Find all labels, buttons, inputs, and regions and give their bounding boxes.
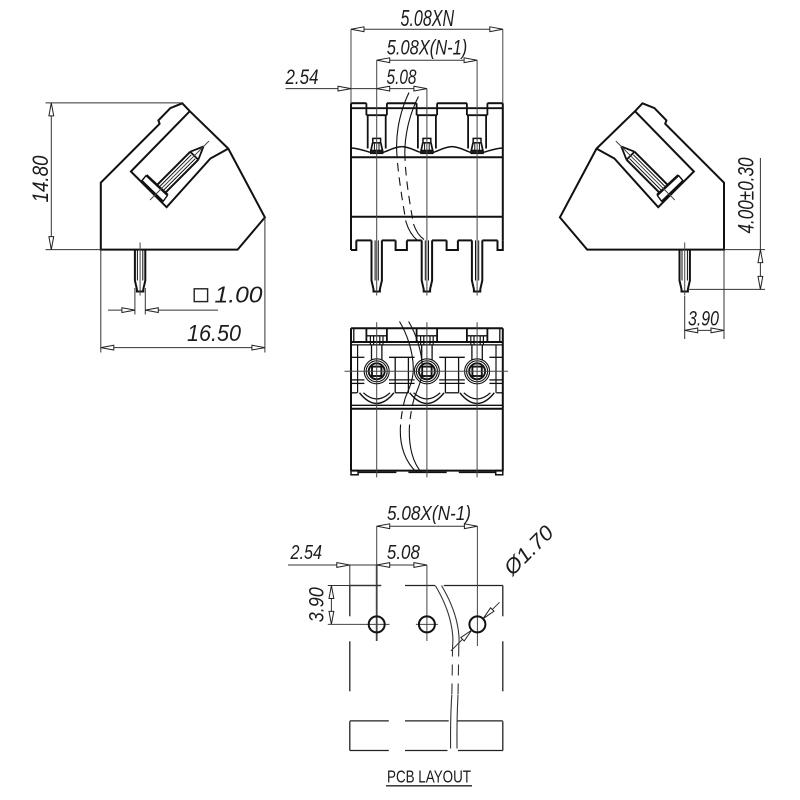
svg-text:5.08: 5.08 <box>387 66 417 89</box>
svg-text:3.90: 3.90 <box>688 308 719 331</box>
svg-text:4.00±0.30: 4.00±0.30 <box>734 157 759 234</box>
svg-text:2.54: 2.54 <box>290 542 322 564</box>
svg-text:5.08X(N-1): 5.08X(N-1) <box>387 503 471 525</box>
svg-text:5.08XN: 5.08XN <box>401 5 455 31</box>
svg-text:16.50: 16.50 <box>187 320 241 346</box>
svg-text:14.80: 14.80 <box>28 155 53 203</box>
svg-text:5.08: 5.08 <box>387 542 420 564</box>
svg-text:5.08X(N-1): 5.08X(N-1) <box>387 37 468 60</box>
svg-text:PCB LAYOUT: PCB LAYOUT <box>387 767 471 787</box>
svg-text:3.90: 3.90 <box>305 587 328 622</box>
svg-text:2.54: 2.54 <box>285 66 319 89</box>
svg-text:1.00: 1.00 <box>215 282 263 308</box>
